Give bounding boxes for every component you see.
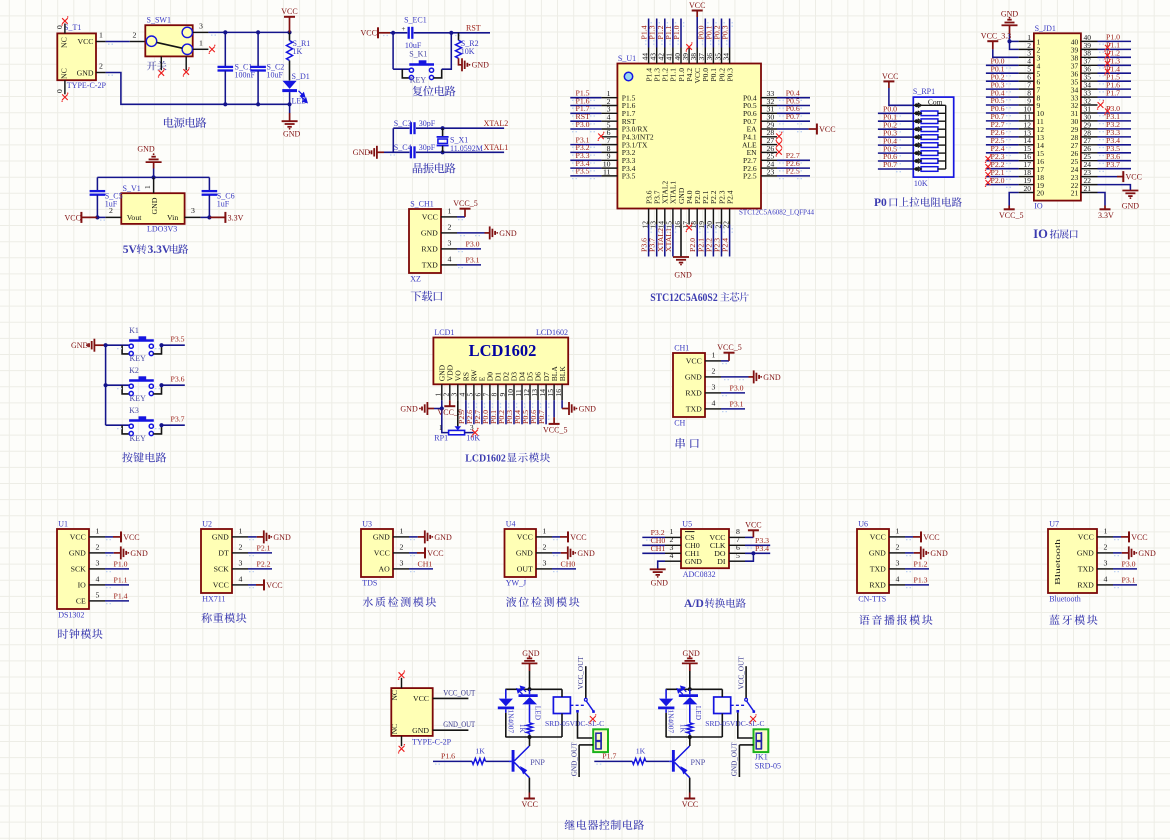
svg-text:U6: U6 [858,519,868,528]
svg-text:Bluetooth: Bluetooth [1049,594,1081,603]
svg-text:P3.5: P3.5 [576,167,590,176]
svg-text:5V: 5V [123,244,138,256]
wire pin2 [105,552,114,554]
wire K1 to P3.5 [162,344,185,346]
LED S_D1 [283,81,297,89]
pin 5 of U5 [729,560,745,562]
svg-text:4: 4 [448,254,452,263]
pin 4 of U7 [1097,584,1113,586]
svg-text:4: 4 [670,551,674,560]
pin 1 of U1 [89,536,105,538]
wire net P2.4 left of JD1 [986,152,1019,154]
wire net P0.3 top [729,19,731,48]
svg-text:+: + [402,25,406,33]
junction LCD GND [440,406,444,410]
wire emitter to VCC [528,778,530,793]
svg-text:XZ: XZ [410,274,421,283]
svg-text:SRD-05VDC-SL-C: SRD-05VDC-SL-C [545,719,604,728]
svg-text:Vout: Vout [127,213,142,222]
wire left branch crystal [392,128,394,152]
wire net P1.6 [570,105,601,107]
pin 2 of U1 [89,552,105,554]
pin 22 P2.4 bottom of S_U1 [729,209,731,225]
svg-text:VCC: VCC [422,213,438,222]
wire net P0.6 below LCD [537,400,539,424]
resistor element 8 of S_RP1 [913,168,921,170]
wire net P2.0 bottom [696,225,698,257]
svg-text:1: 1 [400,526,404,535]
resistor element 7 of S_RP1 [913,160,921,162]
wire GND stem to rail [689,671,691,689]
svg-text:YW_J: YW_J [506,578,526,587]
svg-text:S_JD1: S_JD1 [1035,24,1056,33]
svg-text:21: 21 [1071,189,1079,198]
svg-text:1: 1 [439,423,443,432]
svg-text:KEY: KEY [130,434,147,443]
svg-text:3: 3 [543,558,547,567]
pin 11 P3.5 of S_U1 [601,175,617,177]
svg-text:GND: GND [434,533,452,542]
box U2 [201,529,232,593]
wire net P2.5 [777,175,810,177]
svg-text:VCC_OUT: VCC_OUT [577,656,585,690]
wire net P3.5 right of JD1 [1098,152,1132,154]
wire base input [594,760,632,762]
power ground bottom of chip [673,256,689,258]
power VCC_5 at pin1 [728,353,730,361]
pin 3 of U3 [393,568,409,570]
pin 21 right of S_JD1 [1081,192,1098,194]
no-connect X at pin 39 [686,44,692,50]
svg-text:VCC_5: VCC_5 [717,343,741,352]
svg-text:BLK: BLK [558,366,567,382]
power ground GND crystal [376,146,378,159]
pin 9 left of S_JD1 [1019,104,1034,106]
svg-text:GND: GND [685,557,702,566]
wire net P2.5 below LCD [465,400,467,424]
svg-text:S_C3: S_C3 [394,119,412,128]
wire net P1.7 right of JD1 [1098,96,1132,98]
svg-text:K1: K1 [129,326,139,335]
junction at VCC rail top [287,30,291,34]
svg-text:P3.4: P3.4 [755,544,769,553]
comment 开关 below switch [147,61,167,70]
pin 44 P1.4 top of S_U1 [648,48,650,64]
no-ERC X at P2.3 [986,156,991,161]
title 晶振电路 [413,163,456,174]
wire net P3.0 right of JD1 [1098,112,1132,114]
wire pin4 [721,408,745,410]
svg-text:LED: LED [534,706,543,720]
pin 35 P0.2 top of S_U1 [721,48,723,64]
svg-text:1: 1 [896,526,900,535]
pin 17 P4.0 bottom of S_U1 [688,209,690,225]
wire net P3.1 right of JD1 [1098,120,1132,122]
pin 30 right of S_JD1 [1081,120,1098,122]
svg-text:1K: 1K [518,724,527,734]
pin 5 left of S_JD1 [1019,72,1034,74]
wire net P0.7 below LCD [545,400,547,424]
connector terminal block green [593,729,608,752]
wire EA to VCC [777,128,809,130]
pin 4 of S_CH1 [441,264,457,266]
resistor element 2 of S_RP1 [913,120,921,122]
svg-text:2: 2 [1104,542,1108,551]
svg-text:GND: GND [400,404,418,413]
power ground GND reset [461,58,463,71]
key K1 [106,344,130,346]
wire pin1 [721,360,729,362]
svg-text:GND: GND [516,549,533,558]
pin S_SW1 pin 1 with no-connect X [193,48,209,50]
power VCC terminal reset [377,27,379,38]
wire net P1.2 top [664,19,666,48]
wire pin1 [105,536,113,538]
capacitor S_C4 30pF [410,146,416,158]
no-ERC X at P1.2 right [1105,53,1110,58]
power VCC right of JD1 [1117,176,1123,178]
svg-text:4: 4 [712,398,716,407]
switch S_SW1 [145,25,192,56]
svg-text:20: 20 [1024,184,1032,193]
IC S_U1 STC12C5A60S2 LQFP44 [617,64,761,209]
wire pin3 [721,392,745,394]
pin symbol 5 of S_RP1 [915,135,919,139]
resistor 1K LED series [527,723,533,734]
pin 13 left of S_JD1 [1019,136,1034,138]
mechanical link dashed [570,704,585,706]
svg-text:VCC: VCC [266,581,282,590]
svg-text:XTAL1: XTAL1 [484,143,509,152]
no-ERC X at P3.0 right [1105,109,1110,114]
pin 35 right of S_JD1 [1081,80,1098,82]
wire U5 pin5 joins pin6 [745,553,753,561]
pin 12 left of S_JD1 [1019,128,1034,130]
svg-text:P3.5: P3.5 [171,334,185,343]
no-connect X at pin 17 [686,225,692,231]
wire pin1 [409,536,418,538]
svg-text:U7: U7 [1049,519,1059,528]
svg-text:VCC: VCC [870,533,886,542]
svg-text:GND: GND [1001,10,1019,19]
no-ERC X at P2.0 [986,180,991,185]
wire net P2.6 [777,167,810,169]
wire net P2.6 left of JD1 [986,136,1019,138]
power VCC at pin1 [560,536,568,538]
svg-text:VCC_5: VCC_5 [453,199,477,208]
resistor element 3 of S_RP1 [913,128,921,130]
pin 23 P2.5 of S_U1 [761,175,777,177]
svg-text:VCC: VCC [213,581,229,590]
no-connect X at blade [750,716,756,722]
wire pin21 to 3.3V [1098,193,1106,206]
title 继电器控制电路 [565,820,644,830]
svg-text:3: 3 [1104,558,1108,567]
svg-text:5: 5 [96,590,100,599]
key K3 [106,424,130,426]
no-ERC X at P1.1 right [1105,45,1110,50]
wire pin2 [248,552,272,554]
relay contact blade [586,701,593,711]
svg-text:3: 3 [400,558,404,567]
svg-text:23: 23 [767,167,775,176]
pin symbol 2 of S_RP1 [915,111,919,115]
wire pin2 [721,376,749,378]
pin 2 of U5 [665,544,681,546]
wire LCD GND down to RP1 pot [442,409,449,433]
pin top NC of output connector [401,678,403,688]
relay contact common [745,666,747,698]
power VCC_5 at LCD pin2 [449,400,451,406]
pin bottom NC of output connector [401,736,403,746]
diode 1N4007 flyback [505,689,507,698]
svg-text:CN-TTS: CN-TTS [858,594,886,603]
wire switch pin3 to VCC rail [208,31,289,33]
wire net P1.5 [570,97,601,99]
pin 3 P1.7 of S_U1 [601,112,617,114]
connector TYPE-C-2P output [391,688,432,736]
svg-text:11: 11 [603,167,611,176]
svg-text:3: 3 [96,558,100,567]
pin 15 XTAL1 bottom of S_U1 [672,209,674,225]
resistor element 5 of S_RP1 [913,144,921,146]
switch contact circles [146,36,156,46]
svg-text:SRD-05: SRD-05 [755,762,781,771]
power VCC terminal top right [289,17,291,33]
pin 37 right of S_JD1 [1081,64,1098,66]
svg-text:GND: GND [373,533,390,542]
svg-text:OUT: OUT [517,565,533,574]
wire key right branch [442,33,452,69]
svg-text:RXD: RXD [1077,581,1094,590]
wire net P1.0 top [680,19,682,48]
pin-1 indicator circle [624,72,632,80]
pin 2 P1.6 of S_U1 [601,105,617,107]
wire net P0.2 left of JD1 [986,80,1019,82]
pin 31 P0.6 of S_U1 [761,112,777,114]
pin S_T1 top NC pin 0 [64,24,66,34]
wire resistor to base [486,760,510,762]
pin 38 VCC top of S_U1 [696,48,698,64]
wire net P1.5 right of JD1 [1098,80,1132,82]
svg-text:P2.0: P2.0 [991,176,1005,185]
svg-text:GND: GND [1077,549,1094,558]
svg-text:Vin: Vin [167,213,178,222]
wire net P3.0 [570,128,601,130]
wire net P1.3 right of JD1 [1098,64,1132,66]
wire net P0.1 left of JD1 [986,72,1019,74]
svg-text:PNP: PNP [691,758,706,767]
wire net P0.0 to S_RP1 [878,112,913,114]
svg-text:2: 2 [400,542,404,551]
wire net P0.3 left of JD1 [986,88,1019,90]
capacitor S_EC1 10uF electrolytic [407,27,413,39]
pin 16 GND bottom of S_U1 [680,209,682,225]
junction crystal top [441,126,445,130]
svg-text:GND: GND [1122,202,1140,211]
wire S_T1 GND to bottom rail [106,73,290,105]
svg-text:GND: GND [869,549,886,558]
wire net P2.6 below LCD [473,400,475,424]
no-connect X at S_T1 top pin [62,18,68,24]
pin 2 of U4 [536,552,552,554]
wire bottom rail crystal [384,151,504,153]
wire pin2 [905,552,914,554]
pin 32 right of S_JD1 [1081,104,1098,106]
power ground at pin2 [561,552,568,554]
power VCC at EA pin [809,128,817,130]
svg-text:3.3V: 3.3V [1098,211,1114,220]
svg-text:GND: GND [763,373,781,382]
power ground at pin2 [914,552,921,554]
wire net P0.2 below LCD [505,400,507,424]
wire coil bottom [721,714,723,738]
svg-text:S_CH1: S_CH1 [410,199,434,208]
svg-text:P1.7: P1.7 [602,751,616,760]
inner bus of S_RP1 [945,105,947,169]
box U3 [361,529,393,577]
power 3.3V right of regulator [209,216,225,218]
pin 20 P2.2 bottom of S_U1 [712,209,714,225]
junction key bus row2 [104,383,108,387]
svg-text:100nF: 100nF [235,71,256,80]
svg-text:Bluetooth: Bluetooth [1053,539,1062,585]
pin S_T1 bottom NC pin 0 [64,80,66,94]
svg-text:3: 3 [191,206,195,215]
pin 40 P1.0 top of S_U1 [680,48,682,64]
pin 25 right of S_JD1 [1081,160,1098,162]
pin 32 P0.5 of S_U1 [761,105,777,107]
svg-text:GND: GND [212,533,229,542]
svg-text:S_RP1: S_RP1 [913,87,935,96]
diode 1N4007 flyback [665,689,667,698]
wire LCD pin15 BLA to VCC_5 [553,400,555,417]
mechanical link dashed [731,704,746,706]
svg-text:4: 4 [96,574,100,583]
svg-text:11.0592M: 11.0592M [450,144,483,153]
svg-text:GND: GND [683,649,701,658]
wire pin3 [552,568,576,570]
title 蓝牙模块 [1049,615,1097,625]
svg-text:1: 1 [199,39,203,48]
wire pin1 [457,216,465,218]
title 电源电路 [164,117,206,128]
wire net P0.4 [777,97,810,99]
wire net P1.4 top [648,19,650,48]
pin 2 of U6 [889,552,905,554]
svg-text:GND: GND [522,649,540,658]
power ground at pin2 [1122,552,1129,554]
wire net P1.4 right of JD1 [1098,72,1132,74]
svg-text:XTAL2: XTAL2 [484,119,509,128]
pin 34 right of S_JD1 [1081,88,1098,90]
wire emitter to VCC [689,778,691,793]
wire net P0.7 [777,120,810,122]
wire pin3 [409,568,433,570]
svg-text:P3.6: P3.6 [171,374,185,383]
power VCC left of regulator [81,216,97,218]
svg-text:LED: LED [694,706,703,720]
pin 6 left of S_JD1 [1019,80,1034,82]
wire coil top [721,689,723,697]
svg-text:CE: CE [76,597,86,606]
wire key bus vertical [105,345,107,425]
svg-text:VCC: VCC [427,549,443,558]
svg-text:U1: U1 [58,519,68,528]
no-connect X at pin 6 [598,134,604,140]
wire key left branch [392,33,394,69]
svg-text:GND: GND [69,549,86,558]
wire pin3 [457,248,481,250]
power VCC_5 at pin1 [464,209,466,217]
wire LCD pin3 VO to pot wiper [457,400,459,426]
pin 3 of U7 [1097,568,1113,570]
power VCC below transistor [689,793,691,799]
wire pin2 to VCC [97,216,105,218]
svg-text:S_C4: S_C4 [394,143,412,152]
svg-text:P3.0: P3.0 [466,240,480,249]
pin 4 of U5 [665,560,681,562]
svg-text:U5: U5 [682,519,692,528]
svg-text:GND: GND [472,61,490,70]
wire net P3.1 [570,144,601,146]
no-connect X at pin 28 [776,134,782,140]
pin symbol 8 of S_RP1 [915,159,919,163]
wire GND to top rail [153,169,155,178]
svg-text:P2.4: P2.4 [725,190,734,204]
wire net P2.0 left of JD1 [986,184,1019,186]
crystal S_X1 11.0592M [442,128,444,136]
wire net P0.0 below LCD [489,400,491,424]
svg-text:GND: GND [651,579,669,588]
svg-text:VCC_3.3: VCC_3.3 [981,32,1011,41]
connector S_T1 TYPE-C-2P [57,33,96,80]
wire bottom rail of relay cell [666,736,723,738]
pin 2 of CH1 [705,376,721,378]
pin 1 of U7 [1097,536,1113,538]
pin 3 of U6 [889,568,905,570]
title 复位电路 [412,86,455,97]
wire net P2.1 bottom [704,225,706,257]
resistor 1K base [632,758,646,764]
pin 43 P1.3 top of S_U1 [656,48,658,64]
svg-text:STC12C5A60S2: STC12C5A60S2 [650,290,718,304]
svg-text:2: 2 [96,542,100,551]
svg-text:GND: GND [77,68,94,77]
wire pin23 to VCC [1098,176,1118,178]
relay fixed contact [737,710,740,713]
svg-text:VCC: VCC [374,549,390,558]
wire VCC_3.3 to pin3 [993,49,1019,57]
svg-text:16: 16 [554,389,563,397]
junction right cap bottom [207,215,211,219]
capacitor S_C5 1uF [96,177,98,190]
pin 36 right of S_JD1 [1081,72,1098,74]
pin 39 right of S_JD1 [1081,48,1098,50]
pin 23 right of S_JD1 [1081,176,1098,178]
wire GND to pins 1-2 [1009,34,1011,42]
svg-text:GND: GND [579,404,597,413]
svg-text:30pF: 30pF [419,143,436,152]
svg-text:P1.7: P1.7 [1106,88,1120,97]
pin 31 right of S_JD1 [1081,112,1098,114]
pin 4 of U6 [889,584,905,586]
svg-text:VCC: VCC [281,7,297,16]
relay coil box [714,697,731,714]
power VCC at pin1 [913,536,921,538]
wire LED to bottom rail [289,92,291,104]
pin 10 P3.4 of S_U1 [601,167,617,169]
